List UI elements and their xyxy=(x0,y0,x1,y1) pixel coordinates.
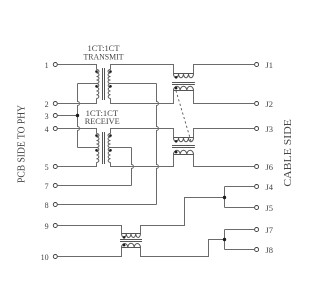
wire T2 secondary bottom to L2 xyxy=(111,155,174,167)
wire T1 secondary center tap to pin8 xyxy=(111,83,157,85)
junction J7 J8 xyxy=(223,238,226,241)
wire T2 secondary top to L2 xyxy=(111,129,174,138)
wire to J8 xyxy=(225,249,255,251)
transformer T1 secondary winding xyxy=(108,84,110,99)
wire T1 secondary top to L1 xyxy=(111,65,174,74)
wire J4 J5 tie vertical xyxy=(224,187,226,208)
wire L3 top to J4 J5 node xyxy=(141,198,225,234)
svg-text:J7: J7 xyxy=(266,225,274,235)
wire to J4 xyxy=(225,186,255,188)
L1 top dot xyxy=(175,76,178,79)
T2 primary dot top xyxy=(95,134,98,137)
wire pin2 to T1 primary bottom xyxy=(57,99,96,104)
T2 primary dot lower xyxy=(95,149,98,152)
wire L1 bottom to J2 xyxy=(194,91,255,104)
wire T2 primary center tap xyxy=(78,147,97,149)
dashed coupling line L1 to L2 xyxy=(176,91,191,142)
choke L1 core xyxy=(172,83,195,85)
junction pin3 center-tap xyxy=(76,114,79,117)
wire to J7 xyxy=(225,229,255,231)
wire T1 secondary bottom to L1 xyxy=(111,91,174,104)
wire rx-ct vertical with hop xyxy=(132,148,134,186)
svg-text:9: 9 xyxy=(45,222,49,231)
transformer T1 core xyxy=(103,68,105,100)
wire pin9 to L3 top xyxy=(57,226,121,234)
L2 top dot xyxy=(175,140,178,143)
wire center-tap vertical with hops xyxy=(78,84,80,148)
pin 9 terminal xyxy=(53,224,57,228)
choke L2 core xyxy=(172,146,195,148)
pin 10 terminal xyxy=(53,255,57,259)
terminal J7 xyxy=(255,228,259,232)
L3 top dot xyxy=(123,236,126,239)
T1 secondary dot lower xyxy=(109,85,112,88)
transformer T1 primary winding xyxy=(97,70,100,84)
terminal J4 xyxy=(255,185,259,189)
svg-text:4: 4 xyxy=(45,125,49,134)
choke L1 bottom winding xyxy=(174,86,194,90)
wire L2 bottom to J6 xyxy=(194,155,255,167)
terminal J2 xyxy=(255,102,259,106)
wire to J5 xyxy=(225,207,255,209)
wire L1 top to J1 xyxy=(194,65,255,74)
svg-text:1: 1 xyxy=(45,61,49,70)
svg-text:TRANSMIT: TRANSMIT xyxy=(84,51,125,61)
pin 3 terminal xyxy=(53,114,57,118)
svg-text:2: 2 xyxy=(45,100,49,109)
choke L2 top winding xyxy=(174,138,194,142)
pin 5 terminal xyxy=(53,165,57,169)
transformer T2 primary winding xyxy=(97,148,99,163)
wire pin8 horizontal xyxy=(57,204,156,206)
choke L1 top winding xyxy=(174,74,194,78)
T2 secondary dot top xyxy=(109,134,112,137)
svg-text:J5: J5 xyxy=(266,203,274,213)
wire pin3 to center-tap node xyxy=(57,115,77,117)
wire T1 primary center tap xyxy=(78,83,97,85)
transformer T2 secondary winding xyxy=(108,134,111,148)
svg-text:J1: J1 xyxy=(266,60,274,70)
svg-text:J3: J3 xyxy=(266,124,274,134)
pin 8 terminal xyxy=(53,203,57,207)
transformer T2 secondary winding xyxy=(108,148,110,163)
pin 1 terminal xyxy=(53,63,57,67)
pin 4 terminal xyxy=(53,127,57,131)
terminal J3 xyxy=(255,127,259,131)
choke L2 bottom winding xyxy=(174,150,194,154)
choke L3 bottom winding xyxy=(122,243,141,247)
T1 secondary dot top xyxy=(109,70,112,73)
svg-text:J8: J8 xyxy=(266,245,274,255)
wire pin4 to T2 primary top xyxy=(57,129,96,134)
wire J7 J8 tie vertical xyxy=(224,230,226,250)
svg-text:5: 5 xyxy=(45,163,49,172)
T1 primary dot top xyxy=(95,70,98,73)
svg-text:CABLE SIDE: CABLE SIDE xyxy=(283,119,294,187)
svg-text:8: 8 xyxy=(45,201,49,210)
L3 bottom dot xyxy=(123,244,126,247)
svg-text:3: 3 xyxy=(45,112,49,121)
terminal J8 xyxy=(255,248,259,252)
transformer T2 primary winding xyxy=(97,134,100,148)
wire T2 secondary center tap to pin7 xyxy=(111,147,132,149)
transformer T1 primary winding xyxy=(97,84,99,99)
T2 secondary dot lower xyxy=(109,149,112,152)
svg-text:RECEIVE: RECEIVE xyxy=(85,116,120,126)
pin 7 terminal xyxy=(53,184,57,188)
junction J4 J5 xyxy=(223,196,226,199)
svg-text:7: 7 xyxy=(45,182,49,191)
wire pin1 to T1 primary top xyxy=(57,65,96,70)
terminal J5 xyxy=(255,206,259,210)
svg-text:J4: J4 xyxy=(266,182,274,192)
terminal J1 xyxy=(255,63,259,67)
choke L3 core xyxy=(120,240,142,242)
pin 2 terminal xyxy=(53,102,57,106)
choke L3 top winding xyxy=(122,234,141,238)
svg-text:J6: J6 xyxy=(266,162,274,172)
svg-text:10: 10 xyxy=(41,253,49,262)
wire pin10 to L3 bottom xyxy=(57,248,121,257)
wire L2 top to J3 xyxy=(194,129,255,138)
wire pin7 horizontal xyxy=(57,185,131,187)
T1 primary dot lower xyxy=(95,85,98,88)
terminal J6 xyxy=(255,165,259,169)
transformer T1 secondary winding xyxy=(108,70,111,84)
svg-text:J2: J2 xyxy=(266,99,274,109)
L2 bottom dot xyxy=(175,151,178,154)
wire L3 bottom to J7 J8 node xyxy=(141,240,225,257)
wire pin5 to T2 primary bottom xyxy=(57,163,96,167)
transformer T2 core xyxy=(103,132,105,164)
svg-text:PCB SIDE TO PHY: PCB SIDE TO PHY xyxy=(17,105,28,183)
L1 bottom dot xyxy=(175,87,178,90)
wire tx-ct vertical with hops xyxy=(157,84,159,205)
